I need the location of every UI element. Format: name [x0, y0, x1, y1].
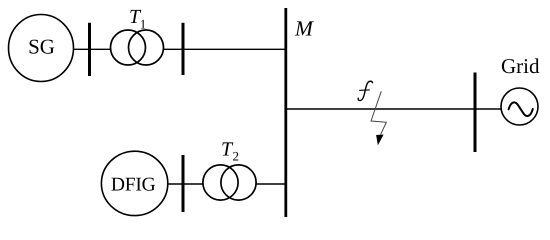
svg-text:Grid: Grid [501, 54, 540, 78]
svg-text:M: M [294, 17, 314, 41]
svg-text:SG: SG [28, 35, 55, 59]
svg-text:2: 2 [233, 149, 240, 164]
svg-text:DFIG: DFIG [111, 175, 156, 196]
svg-text:1: 1 [140, 17, 147, 32]
